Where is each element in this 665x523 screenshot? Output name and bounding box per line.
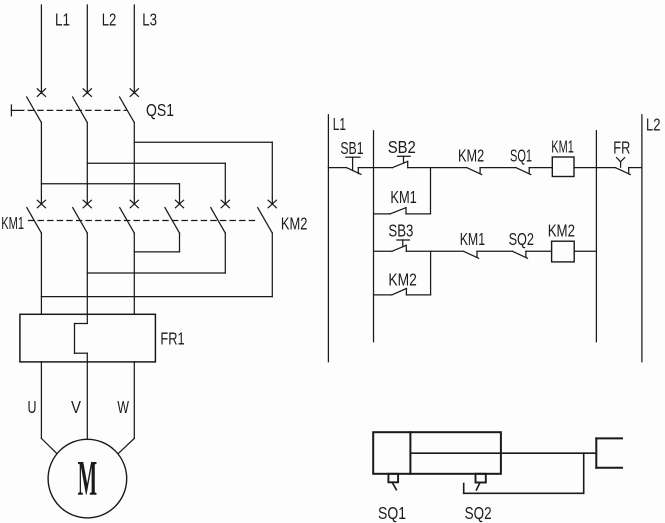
svg-text:L1: L1 xyxy=(333,114,346,134)
svg-text:SB3: SB3 xyxy=(388,220,413,240)
svg-text:U: U xyxy=(28,397,37,417)
svg-text:QS1: QS1 xyxy=(146,100,174,120)
svg-text:SQ1: SQ1 xyxy=(510,146,532,166)
svg-text:L2: L2 xyxy=(646,115,661,135)
svg-text:SQ1: SQ1 xyxy=(378,503,406,523)
svg-text:SQ2: SQ2 xyxy=(465,503,492,523)
svg-text:L1: L1 xyxy=(55,9,70,29)
svg-text:FR: FR xyxy=(613,138,630,158)
svg-text:KM2: KM2 xyxy=(388,269,416,289)
svg-text:FR1: FR1 xyxy=(160,329,184,349)
svg-text:KM2: KM2 xyxy=(281,214,308,234)
svg-text:SQ2: SQ2 xyxy=(509,229,534,249)
svg-text:KM1: KM1 xyxy=(390,187,416,207)
svg-text:SB2: SB2 xyxy=(388,137,416,157)
svg-text:KM1: KM1 xyxy=(1,213,24,233)
svg-text:SB1: SB1 xyxy=(340,138,363,158)
svg-text:M: M xyxy=(78,450,98,506)
svg-text:KM2: KM2 xyxy=(458,146,484,166)
svg-text:KM1: KM1 xyxy=(551,137,574,157)
svg-text:L2: L2 xyxy=(102,9,117,29)
svg-text:KM1: KM1 xyxy=(460,229,485,249)
svg-text:KM2: KM2 xyxy=(548,221,575,241)
svg-text:V: V xyxy=(71,397,81,417)
svg-text:L3: L3 xyxy=(142,9,157,29)
svg-text:W: W xyxy=(117,397,129,417)
